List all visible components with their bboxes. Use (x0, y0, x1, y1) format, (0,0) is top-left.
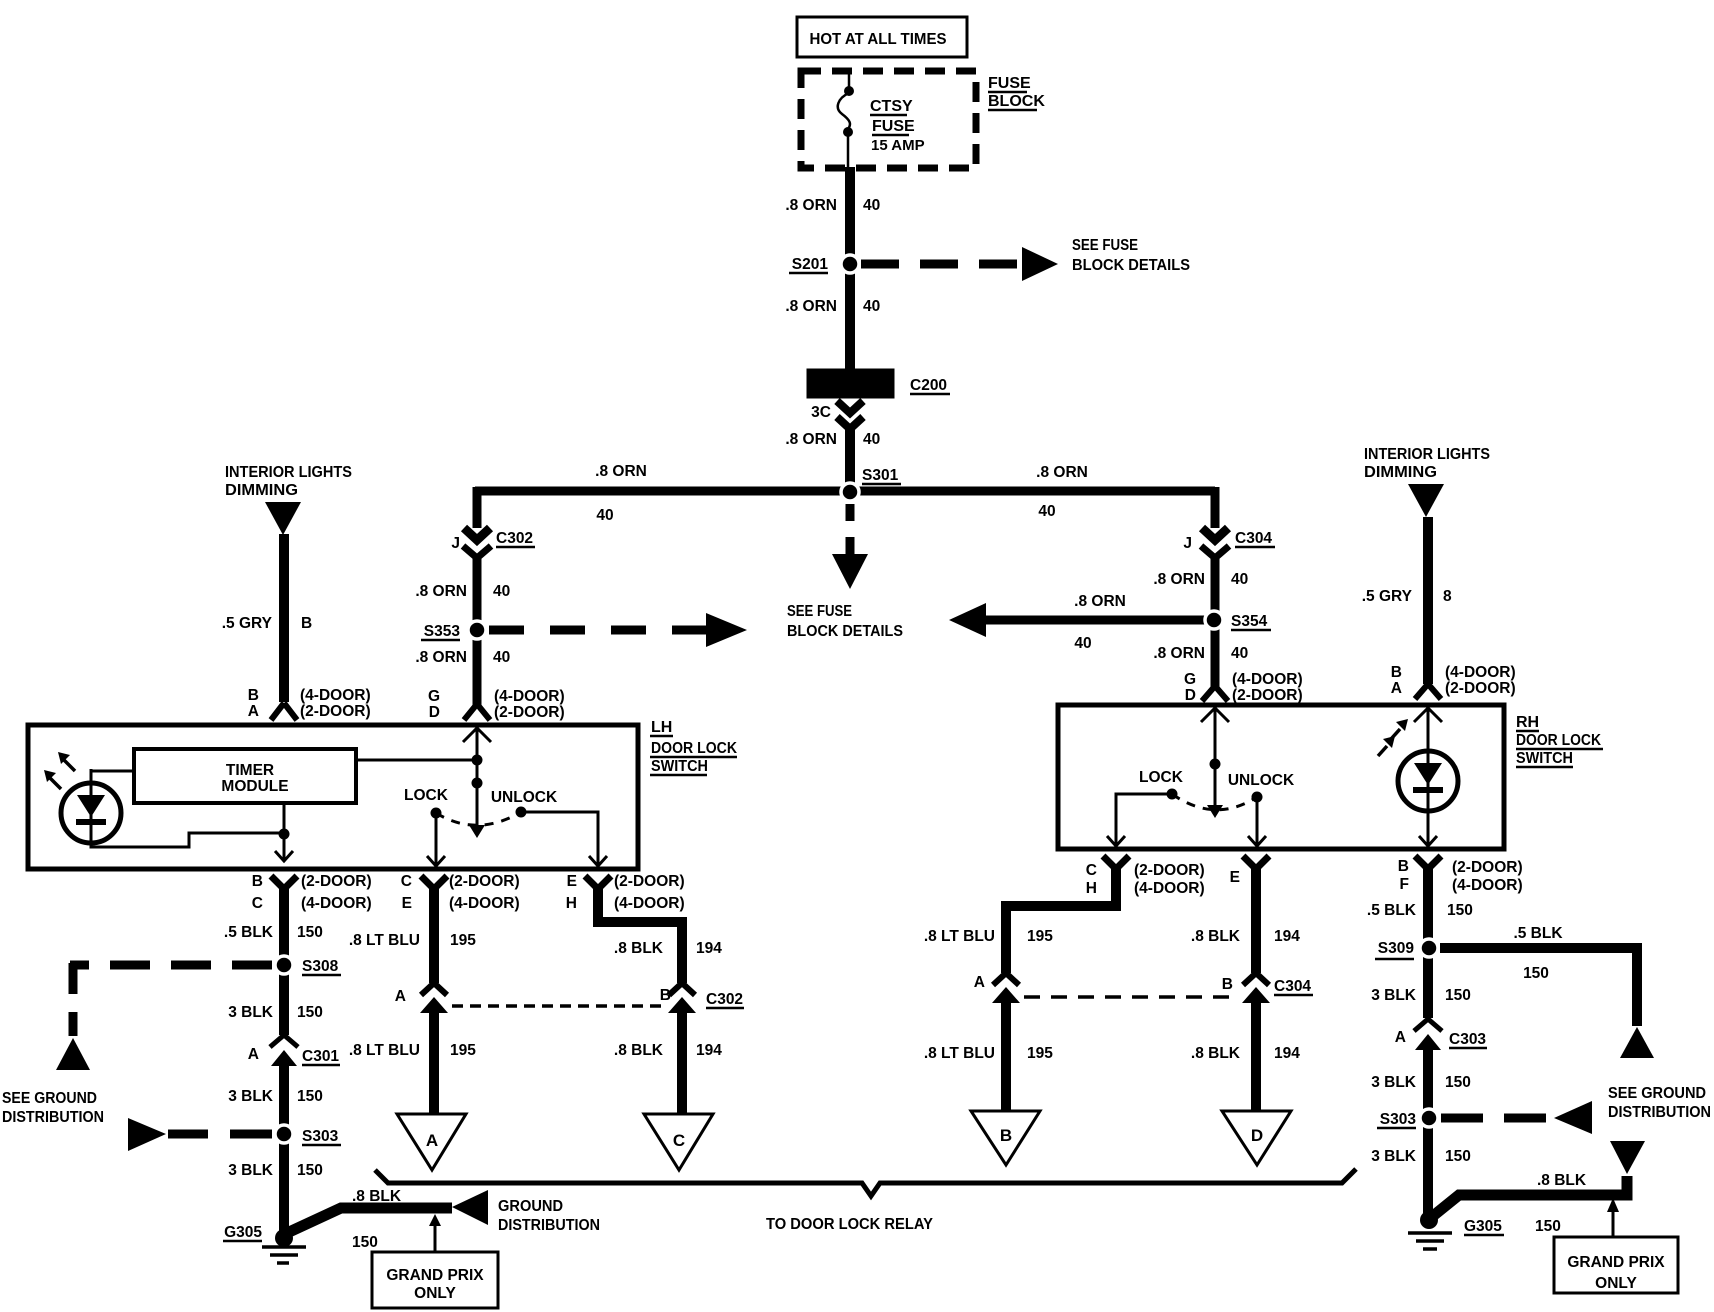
svg-text:ONLY: ONLY (1595, 1275, 1637, 1292)
svg-text:S354: S354 (1231, 613, 1268, 630)
svg-text:150: 150 (1445, 987, 1471, 1004)
svg-text:S309: S309 (1378, 940, 1415, 957)
svg-text:B: B (1391, 664, 1402, 681)
svg-text:G305: G305 (1464, 1218, 1502, 1235)
svg-text:C304: C304 (1274, 978, 1311, 995)
svg-text:SEE GROUND: SEE GROUND (2, 1090, 97, 1107)
svg-text:(2-DOOR): (2-DOOR) (1445, 680, 1516, 697)
svg-text:40: 40 (1074, 635, 1091, 652)
svg-text:.8 ORN: .8 ORN (415, 649, 467, 666)
svg-text:.8 ORN: .8 ORN (1153, 645, 1205, 662)
svg-text:40: 40 (863, 197, 880, 214)
svg-text:B: B (1222, 976, 1233, 993)
svg-text:195: 195 (450, 1042, 476, 1059)
svg-text:SWITCH: SWITCH (651, 758, 708, 775)
svg-text:(4-DOOR): (4-DOOR) (614, 895, 685, 912)
svg-text:A: A (395, 988, 406, 1005)
svg-text:150: 150 (1445, 1148, 1471, 1165)
svg-text:.8 ORN: .8 ORN (1074, 593, 1126, 610)
svg-text:A: A (248, 1046, 259, 1063)
svg-text:INTERIOR LIGHTS: INTERIOR LIGHTS (225, 464, 352, 481)
svg-text:150: 150 (1523, 965, 1549, 982)
svg-text:(2-DOOR): (2-DOOR) (449, 873, 520, 890)
svg-text:8: 8 (1443, 588, 1452, 605)
svg-text:DOOR LOCK: DOOR LOCK (651, 740, 737, 757)
svg-text:SEE FUSE: SEE FUSE (1072, 237, 1138, 254)
svg-text:S201: S201 (792, 256, 829, 273)
svg-text:150: 150 (1535, 1218, 1561, 1235)
svg-text:G: G (428, 688, 440, 705)
svg-text:BLOCK: BLOCK (988, 93, 1045, 110)
svg-text:DIMMING: DIMMING (1364, 464, 1437, 481)
svg-text:J: J (451, 535, 460, 552)
svg-text:15 AMP: 15 AMP (871, 137, 925, 154)
svg-text:.8 BLK: .8 BLK (1191, 928, 1241, 945)
svg-text:S303: S303 (302, 1128, 339, 1145)
svg-text:A: A (248, 703, 259, 720)
svg-text:3 BLK: 3 BLK (1371, 1148, 1417, 1165)
svg-text:E: E (1230, 869, 1240, 886)
svg-text:40: 40 (493, 583, 510, 600)
svg-text:S303: S303 (1380, 1111, 1417, 1128)
svg-text:C: C (401, 873, 412, 890)
svg-text:C200: C200 (910, 377, 947, 394)
svg-text:LOCK: LOCK (404, 787, 449, 804)
svg-text:H: H (566, 895, 577, 912)
svg-text:C: C (1086, 862, 1097, 879)
svg-text:B: B (1398, 858, 1409, 875)
svg-text:C303: C303 (1449, 1031, 1486, 1048)
svg-text:.8 LT BLU: .8 LT BLU (349, 1042, 420, 1059)
svg-text:HOT AT ALL TIMES: HOT AT ALL TIMES (810, 31, 947, 48)
svg-text:40: 40 (1231, 571, 1248, 588)
svg-text:194: 194 (1274, 928, 1300, 945)
svg-text:(4-DOOR): (4-DOOR) (494, 688, 565, 705)
svg-text:CTSY: CTSY (870, 98, 913, 115)
svg-text:(4-DOOR): (4-DOOR) (449, 895, 520, 912)
svg-text:40: 40 (493, 649, 510, 666)
svg-text:.8 BLK: .8 BLK (614, 1042, 664, 1059)
svg-text:.8 ORN: .8 ORN (595, 463, 647, 480)
svg-text:.8 ORN: .8 ORN (415, 583, 467, 600)
svg-text:.8 ORN: .8 ORN (785, 298, 837, 315)
svg-text:A: A (1391, 680, 1402, 697)
svg-text:S308: S308 (302, 958, 339, 975)
svg-text:E: E (567, 873, 577, 890)
svg-text:D: D (1251, 1126, 1263, 1145)
svg-text:(2-DOOR): (2-DOOR) (301, 873, 372, 890)
svg-text:C301: C301 (302, 1048, 339, 1065)
svg-text:(4-DOOR): (4-DOOR) (301, 895, 372, 912)
svg-text:UNLOCK: UNLOCK (1228, 772, 1295, 789)
svg-text:40: 40 (863, 431, 880, 448)
svg-text:(2-DOOR): (2-DOOR) (494, 704, 565, 721)
svg-text:.8 BLK: .8 BLK (1191, 1045, 1241, 1062)
svg-text:LH: LH (651, 719, 672, 736)
svg-text:A: A (426, 1131, 438, 1150)
svg-text:150: 150 (1447, 902, 1473, 919)
svg-text:B: B (252, 873, 263, 890)
svg-text:A: A (974, 974, 985, 991)
svg-text:SWITCH: SWITCH (1516, 750, 1573, 767)
svg-text:B: B (248, 687, 259, 704)
svg-text:.8 LT BLU: .8 LT BLU (924, 1045, 995, 1062)
svg-text:FUSE: FUSE (988, 75, 1031, 92)
svg-text:150: 150 (352, 1234, 378, 1251)
svg-text:GRAND PRIX: GRAND PRIX (386, 1267, 484, 1284)
svg-text:194: 194 (1274, 1045, 1300, 1062)
svg-text:.5 BLK: .5 BLK (1513, 925, 1563, 942)
svg-text:(4-DOOR): (4-DOOR) (1134, 880, 1205, 897)
svg-text:40: 40 (1038, 503, 1055, 520)
svg-text:A: A (1395, 1029, 1406, 1046)
svg-text:SEE GROUND: SEE GROUND (1608, 1085, 1706, 1102)
svg-text:S301: S301 (862, 467, 899, 484)
svg-text:D: D (1185, 687, 1196, 704)
svg-text:C: C (673, 1131, 685, 1150)
svg-text:(2-DOOR): (2-DOOR) (1134, 862, 1205, 879)
svg-text:C302: C302 (706, 991, 743, 1008)
svg-text:INTERIOR LIGHTS: INTERIOR LIGHTS (1364, 446, 1490, 463)
svg-text:E: E (402, 895, 412, 912)
svg-text:DOOR LOCK: DOOR LOCK (1516, 732, 1601, 749)
svg-text:(4-DOOR): (4-DOOR) (1232, 671, 1303, 688)
svg-text:195: 195 (1027, 928, 1053, 945)
svg-text:3 BLK: 3 BLK (228, 1004, 274, 1021)
svg-text:.5 BLK: .5 BLK (1367, 902, 1417, 919)
svg-text:LOCK: LOCK (1139, 769, 1184, 786)
svg-text:MODULE: MODULE (221, 778, 288, 795)
svg-text:H: H (1086, 880, 1097, 897)
svg-text:DISTRIBUTION: DISTRIBUTION (2, 1109, 104, 1126)
svg-text:40: 40 (596, 507, 613, 524)
svg-text:40: 40 (1231, 645, 1248, 662)
svg-text:DIMMING: DIMMING (225, 482, 298, 499)
svg-text:B: B (1000, 1126, 1012, 1145)
svg-text:.8 BLK: .8 BLK (614, 940, 664, 957)
svg-text:.8 LT BLU: .8 LT BLU (349, 932, 420, 949)
svg-text:UNLOCK: UNLOCK (491, 789, 558, 806)
svg-text:C304: C304 (1235, 530, 1272, 547)
svg-text:194: 194 (696, 940, 722, 957)
svg-text:.8 ORN: .8 ORN (1153, 571, 1205, 588)
svg-text:G305: G305 (224, 1224, 262, 1241)
svg-text:FUSE: FUSE (872, 118, 915, 135)
svg-text:SEE FUSE: SEE FUSE (787, 603, 852, 620)
svg-text:150: 150 (297, 1088, 323, 1105)
svg-text:F: F (1400, 876, 1409, 893)
svg-text:TO DOOR LOCK RELAY: TO DOOR LOCK RELAY (766, 1216, 933, 1233)
svg-text:3 BLK: 3 BLK (1371, 1074, 1417, 1091)
svg-text:40: 40 (863, 298, 880, 315)
svg-text:195: 195 (450, 932, 476, 949)
svg-text:(2-DOOR): (2-DOOR) (300, 703, 371, 720)
svg-text:.5 GRY: .5 GRY (1362, 588, 1413, 605)
svg-text:RH: RH (1516, 714, 1539, 731)
svg-text:DISTRIBUTION: DISTRIBUTION (498, 1217, 600, 1234)
svg-text:194: 194 (696, 1042, 722, 1059)
svg-text:GRAND PRIX: GRAND PRIX (1567, 1254, 1665, 1271)
svg-text:.5 GRY: .5 GRY (222, 615, 273, 632)
svg-text:150: 150 (297, 924, 323, 941)
svg-text:B: B (301, 615, 312, 632)
svg-text:(4-DOOR): (4-DOOR) (1452, 877, 1523, 894)
svg-text:150: 150 (297, 1162, 323, 1179)
svg-text:(4-DOOR): (4-DOOR) (1445, 664, 1516, 681)
svg-text:J: J (1183, 535, 1192, 552)
svg-text:ONLY: ONLY (414, 1285, 456, 1302)
svg-text:C: C (252, 895, 263, 912)
svg-text:3 BLK: 3 BLK (228, 1088, 274, 1105)
svg-text:.8 ORN: .8 ORN (1036, 464, 1088, 481)
svg-text:BLOCK DETAILS: BLOCK DETAILS (1072, 257, 1190, 274)
svg-text:.8 LT BLU: .8 LT BLU (924, 928, 995, 945)
svg-text:(2-DOOR): (2-DOOR) (1452, 859, 1523, 876)
svg-text:.8 ORN: .8 ORN (785, 431, 837, 448)
svg-text:BLOCK DETAILS: BLOCK DETAILS (787, 623, 903, 640)
svg-text:C302: C302 (496, 530, 533, 547)
svg-text:TIMER: TIMER (226, 762, 274, 779)
svg-text:.8 BLK: .8 BLK (352, 1188, 402, 1205)
svg-text:150: 150 (297, 1004, 323, 1021)
svg-text:.8 BLK: .8 BLK (1537, 1172, 1587, 1189)
svg-text:B: B (660, 987, 671, 1004)
svg-text:(2-DOOR): (2-DOOR) (614, 873, 685, 890)
svg-text:150: 150 (1445, 1074, 1471, 1091)
svg-text:(4-DOOR): (4-DOOR) (300, 687, 371, 704)
svg-text:3 BLK: 3 BLK (228, 1162, 274, 1179)
svg-text:.5 BLK: .5 BLK (224, 924, 274, 941)
svg-text:195: 195 (1027, 1045, 1053, 1062)
svg-text:3C: 3C (811, 404, 831, 421)
svg-text:.8 ORN: .8 ORN (785, 197, 837, 214)
svg-text:D: D (429, 704, 440, 721)
svg-text:(2-DOOR): (2-DOOR) (1232, 687, 1303, 704)
svg-text:DISTRIBUTION: DISTRIBUTION (1608, 1104, 1711, 1121)
svg-text:S353: S353 (424, 623, 461, 640)
svg-text:G: G (1184, 671, 1196, 688)
svg-text:3 BLK: 3 BLK (1371, 987, 1417, 1004)
svg-text:GROUND: GROUND (498, 1198, 563, 1215)
